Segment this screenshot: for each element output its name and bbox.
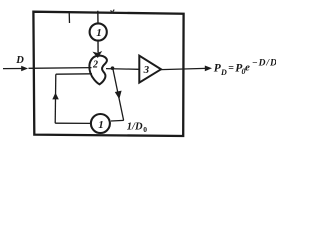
svg-text:−D/D: −D/D [252,58,276,68]
svg-text:1: 1 [98,119,104,131]
output formula P_D = P_0 e^-D/D0 [214,58,278,77]
wire: amplifier output through box edge [161,68,206,69]
output arrowhead [205,66,212,72]
block 1 (top circle) [90,23,107,40]
wire: box edge to node 2 [29,67,92,70]
wire: corner to block 1 (bottom) [111,119,124,122]
svg-text:0: 0 [143,125,147,134]
block 1 (bottom circle) [91,114,110,133]
wire: block 1 down to node 2 with arrowhead [97,41,99,53]
wire: feedback return into node 2 [56,73,92,75]
wire: block 1 bottom to left leg [55,122,91,124]
svg-text:=: = [228,63,234,74]
svg-text:D: D [220,68,227,77]
svg-text:e: e [245,61,250,73]
wire: top edge down to block 1 [97,11,99,24]
amplifier 3 (triangle) [139,56,161,83]
svg-text:2: 2 [92,60,98,71]
svg-text:1/D: 1/D [127,122,143,133]
summing node 2 [89,56,107,85]
wire: node 2 to amplifier 3 [106,68,139,71]
outer system box [33,12,183,136]
svg-text:3: 3 [143,64,150,76]
svg-text:D: D [15,55,24,66]
stray check mark on top edge [111,10,115,13]
svg-text:1: 1 [96,27,102,39]
input wire with arrowhead [3,68,23,70]
wire: stub from top edge at x=69 [68,12,70,23]
wire: left leg up with arrowhead [54,74,57,123]
junction dot on output line [111,66,115,70]
wire: feedback tap slanting down with arrowhead [113,68,124,120]
